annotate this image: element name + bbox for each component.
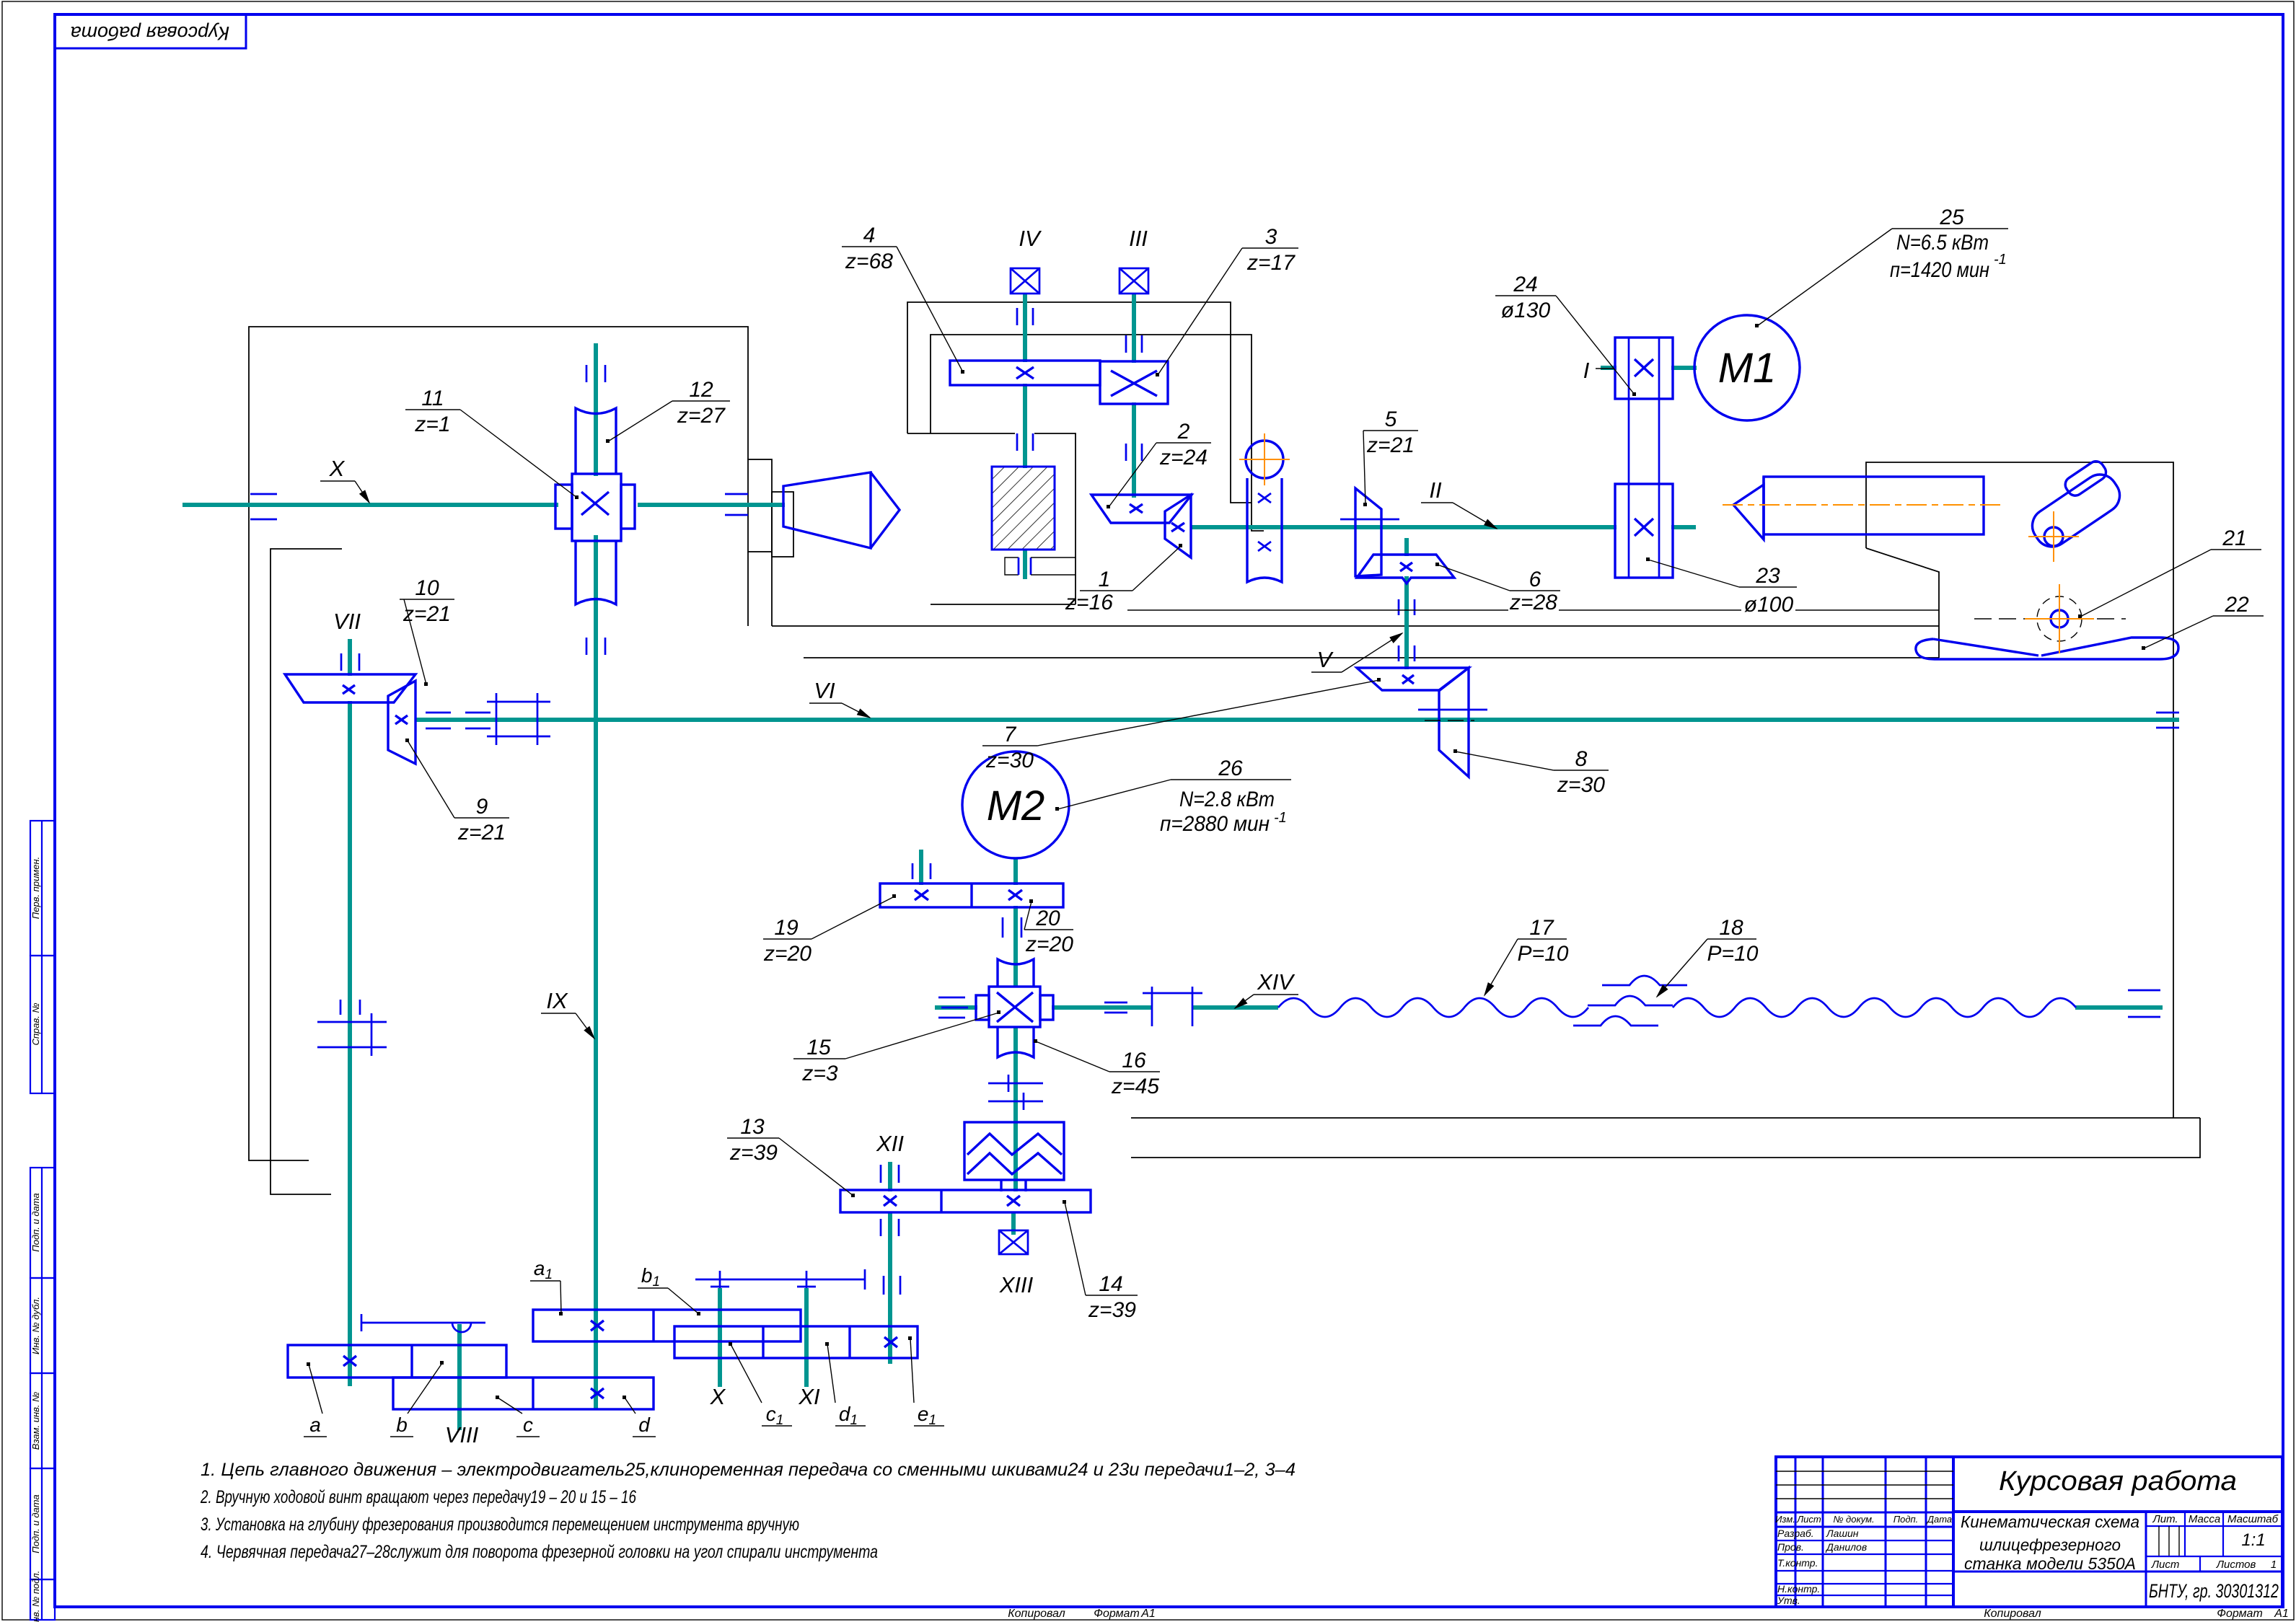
shaft XII upper xyxy=(888,1162,892,1191)
svg-text:1: 1 xyxy=(1099,568,1111,591)
shaft M2 to gear 20 xyxy=(1013,858,1018,885)
thrust support right of shaft IV xyxy=(1030,557,1032,575)
svg-text:22: 22 xyxy=(2224,593,2249,617)
label a1 xyxy=(530,1257,563,1315)
svg-text:z=20: z=20 xyxy=(763,942,811,966)
svg-text:2: 2 xyxy=(1177,420,1190,444)
left margin stamp: Подп. и дата (2) xyxy=(30,1468,55,1579)
label d xyxy=(623,1396,656,1437)
label e1 xyxy=(908,1336,944,1428)
label I xyxy=(1583,358,1614,383)
svg-text:I: I xyxy=(1583,358,1590,383)
pulley 23 xyxy=(1615,484,1673,578)
bottom org cell xyxy=(1953,1571,2146,1573)
gear 7 z=30 bevel xyxy=(1357,668,1469,690)
svg-text:2. Вручную ходовой винт вращаю: 2. Вручную ходовой винт вращают через пе… xyxy=(200,1487,636,1507)
svg-text:Копировал: Копировал xyxy=(1008,1608,1065,1620)
label 16 z=45 xyxy=(1034,1039,1160,1098)
gear 4 z=68 rect xyxy=(950,361,1100,385)
break marks shaft X left end xyxy=(250,494,277,519)
svg-text:п=2880 мин: п=2880 мин xyxy=(1160,812,1270,836)
title block header band xyxy=(1776,1512,1953,1514)
slide marks shaft IV below gear 4 xyxy=(1017,433,1033,451)
svg-text:станка модели 5350А: станка модели 5350А xyxy=(1964,1554,2136,1573)
svg-text:16: 16 xyxy=(1122,1049,1146,1072)
svg-text:P=10: P=10 xyxy=(1707,942,1759,966)
svg-text:II: II xyxy=(1429,477,1442,503)
shaft IV upper xyxy=(1023,294,1027,362)
thrust square below drum (black box with blue edge) xyxy=(1005,557,1019,575)
svg-text:ø100: ø100 xyxy=(1744,593,1794,617)
slide marks shaft III below gear 3 xyxy=(1126,444,1142,461)
svg-text:Инв. № дубл.: Инв. № дубл. xyxy=(30,1297,41,1354)
quadrant arm upper xyxy=(695,1269,865,1290)
svg-text:А1: А1 xyxy=(2274,1608,2289,1620)
milling head pivot circle xyxy=(2044,527,2063,546)
bearing line at gear 8 xyxy=(1418,709,1487,711)
flexible shaft break xyxy=(1573,976,1687,1026)
housing: left column outer outline xyxy=(249,327,748,1160)
spline marks shaft XIV xyxy=(1104,1002,1127,1013)
gear row a1 b1 xyxy=(533,1310,801,1341)
coupling on shaft XIV xyxy=(1143,987,1202,1026)
svg-text:8: 8 xyxy=(1575,747,1588,771)
housing: left column inner outline xyxy=(270,549,342,1194)
svg-text:1:1: 1:1 xyxy=(2241,1530,2265,1550)
svg-text:z=24: z=24 xyxy=(1159,446,1208,470)
svg-text:3. Установка на глубину фрезер: 3. Установка на глубину фрезерования про… xyxy=(201,1515,799,1535)
spline marks shaft VI left xyxy=(426,713,491,728)
label d1 xyxy=(825,1342,866,1428)
left margin stamp: Взам. инв. № xyxy=(30,1373,55,1468)
change gear shaft X lower xyxy=(718,1288,722,1387)
divider under title xyxy=(1953,1510,2282,1513)
svg-text:-1: -1 xyxy=(1994,252,2007,268)
svg-text:Листов: Листов xyxy=(2216,1559,2256,1571)
svg-text:23: 23 xyxy=(1755,564,1780,588)
worm wheel 12 lower segment xyxy=(576,541,616,604)
label 1 z=16 xyxy=(1065,544,1182,614)
svg-text:Дата: Дата xyxy=(1926,1514,1952,1525)
svg-text:Лит.: Лит. xyxy=(2152,1513,2178,1525)
label 7 z=30 xyxy=(982,678,1381,772)
svg-text:IV: IV xyxy=(1019,226,1042,251)
shaft X right part xyxy=(638,503,785,507)
housing: gearbox inner box bottom xyxy=(931,604,1076,605)
shaft VII xyxy=(348,701,352,1386)
coupling on shaft VII xyxy=(317,1013,387,1056)
list row xyxy=(2146,1556,2282,1557)
housing: headstock diagonal xyxy=(1866,548,1939,658)
svg-text:Кинематическая схема: Кинематическая схема xyxy=(1961,1512,2139,1531)
gear 1 z=16 bevel xyxy=(1165,495,1191,557)
housing: wall block B at shaft X exit xyxy=(772,492,793,557)
label 6 z=28 xyxy=(1435,563,1560,614)
label c xyxy=(496,1396,540,1437)
left margin stamp: Подп. и дата (1) xyxy=(30,1168,55,1278)
svg-text:А1: А1 xyxy=(1140,1608,1156,1620)
slide marks shaft V upper xyxy=(1399,599,1415,615)
idler pulley x marks xyxy=(1258,493,1271,551)
label 14 z=39 xyxy=(1063,1200,1138,1322)
label 23 d100 xyxy=(1646,557,1797,617)
shaft VI xyxy=(415,718,2179,722)
svg-text:11: 11 xyxy=(421,387,444,410)
svg-text:М2: М2 xyxy=(987,783,1045,829)
label 12 z=27 xyxy=(606,378,730,443)
worm 11 center box on shaft X xyxy=(555,474,635,541)
label 15 z=3 xyxy=(793,1010,1000,1085)
gear 13 and 14 row xyxy=(840,1190,1091,1212)
svg-text:z=20: z=20 xyxy=(1025,933,1073,956)
svg-text:20: 20 xyxy=(1035,907,1060,930)
svg-text:1. Цепь главного движения – эл: 1. Цепь главного движения – электродвига… xyxy=(201,1460,1296,1480)
svg-text:z=21: z=21 xyxy=(1366,433,1415,457)
shaft III lower xyxy=(1132,402,1136,498)
milling head (rotated) xyxy=(2019,458,2126,553)
triple spline marks left of worm 15 xyxy=(938,997,968,1018)
label 22 xyxy=(2142,593,2264,650)
idler pulley circle xyxy=(1246,441,1283,478)
label 20 z=20 xyxy=(1024,899,1073,956)
slide marks shaft IV upper xyxy=(1017,308,1033,325)
shaft IX xyxy=(594,535,598,1409)
bearing box shaft XIII xyxy=(999,1230,1028,1254)
svg-text:z=28: z=28 xyxy=(1509,591,1557,614)
label 11 z=1 xyxy=(405,387,579,499)
label 5 z=21 xyxy=(1363,407,1418,506)
gear 10 z=21 bevel xyxy=(285,674,415,702)
svg-text:10: 10 xyxy=(415,576,439,600)
label 21 xyxy=(2078,526,2261,618)
gear 9 z=21 bevel xyxy=(388,681,415,764)
svg-text:17: 17 xyxy=(1529,916,1554,940)
svg-text:Утв.: Утв. xyxy=(1777,1595,1800,1606)
shaft XIV left of crossbox xyxy=(935,1005,977,1010)
label V xyxy=(1311,633,1402,672)
svg-text:X: X xyxy=(710,1384,726,1409)
label 19 z=20 xyxy=(763,894,896,966)
label 9 z=21 xyxy=(405,739,509,845)
housing: headstock box xyxy=(1866,462,2173,1118)
label 26 motor M2 xyxy=(1055,757,1291,836)
spring box xyxy=(964,1122,1064,1191)
worm wheel 12 upper segment xyxy=(576,408,616,474)
label XIV xyxy=(1235,969,1298,1008)
gear row c d xyxy=(393,1378,654,1409)
label 24 d130 xyxy=(1495,273,1636,396)
slide marks shaft IX top xyxy=(586,365,605,382)
shaft gear20 to gear15 xyxy=(1013,906,1018,987)
shaft IV lower xyxy=(1023,550,1027,579)
svg-text:XI: XI xyxy=(798,1384,820,1409)
svg-text:18: 18 xyxy=(1719,916,1743,940)
label VI xyxy=(809,678,870,718)
quadrant arm lower xyxy=(361,1314,485,1331)
svg-text:4. Червячная передача27–28слу: 4. Червячная передача27–28служит для пов… xyxy=(201,1542,878,1562)
svg-text:Справ. №: Справ. № xyxy=(30,1002,41,1045)
svg-text:Лист: Лист xyxy=(2151,1559,2180,1571)
shaft XIV right segment 2 xyxy=(1193,1005,1278,1010)
label VII xyxy=(333,609,361,634)
svg-text:Подп. и дата: Подп. и дата xyxy=(30,1193,41,1251)
shaft IV middle xyxy=(1023,384,1027,468)
gear row a b xyxy=(288,1345,506,1378)
svg-text:XIV: XIV xyxy=(1257,969,1296,995)
svg-text:6: 6 xyxy=(1529,568,1541,591)
workpiece body xyxy=(1764,477,1984,534)
top-left rotated stamp box xyxy=(55,14,246,48)
svg-text:26: 26 xyxy=(1218,757,1243,780)
slide marks right of quadrant arm xyxy=(884,1276,900,1295)
shaft XIV right end xyxy=(2075,1005,2163,1010)
shaft XII lower xyxy=(888,1212,892,1364)
idler pulley body xyxy=(1247,478,1282,582)
svg-text:13: 13 xyxy=(740,1115,765,1139)
svg-text:III: III xyxy=(1129,226,1148,251)
svg-text:b: b xyxy=(396,1414,408,1436)
svg-text:P=10: P=10 xyxy=(1518,942,1569,966)
svg-text:Взам. инв. №: Взам. инв. № xyxy=(30,1392,41,1450)
svg-text:БНТУ, гр. 30301312: БНТУ, гр. 30301312 xyxy=(2149,1580,2279,1602)
gear 2 z=24 bevel xyxy=(1091,495,1192,523)
shaft II right stub xyxy=(1671,525,1696,529)
cutter 21 dashed centerline xyxy=(1974,618,2126,620)
slide marks gear19 stub xyxy=(912,863,931,879)
housing: gearbox outer box xyxy=(907,302,1252,503)
svg-text:N=6.5 кВт: N=6.5 кВт xyxy=(1896,231,1989,255)
svg-text:Пров.: Пров. xyxy=(1777,1541,1804,1553)
left margin stamp: Справ. № xyxy=(30,956,55,1093)
break marks shaft VI right end xyxy=(2156,713,2179,728)
flexible shaft 17 wave left xyxy=(1278,998,1588,1017)
shaft through spring box xyxy=(1013,1125,1018,1191)
svg-text:z=39: z=39 xyxy=(1088,1298,1136,1322)
bearing box shaft IV xyxy=(1011,268,1039,294)
svg-text:19: 19 xyxy=(774,916,799,940)
svg-text:VIII: VIII xyxy=(445,1422,479,1447)
svg-text:Лашин: Лашин xyxy=(1826,1528,1859,1539)
slide marks below gear 20 xyxy=(1003,917,1021,938)
orange crosshair cutter 21 xyxy=(2025,584,2094,653)
housing: bed top line xyxy=(772,625,1939,627)
svg-text:z=21: z=21 xyxy=(457,821,506,845)
orange crosshair milling head pivot xyxy=(2028,511,2079,562)
svg-text:Перв. примен.: Перв. примен. xyxy=(30,857,41,919)
svg-text:25: 25 xyxy=(1939,206,1964,229)
svg-text:№ докум.: № докум. xyxy=(1833,1514,1874,1525)
left margin stamp: Инв. № дубл. xyxy=(30,1278,55,1373)
label 2 z=24 xyxy=(1107,420,1211,508)
gear 5 z=21 bevel xyxy=(1355,488,1381,576)
worm wheel 16 upper segment xyxy=(998,959,1034,987)
housing: lower bed band top xyxy=(1131,1117,2200,1119)
svg-text:Разраб.: Разраб. xyxy=(1777,1528,1814,1539)
svg-text:9: 9 xyxy=(476,795,488,819)
pivot symbol on arm xyxy=(452,1323,471,1332)
shaft I left stub xyxy=(1601,366,1617,370)
svg-text:12: 12 xyxy=(689,378,713,402)
svg-text:a: a xyxy=(309,1414,321,1436)
svg-text:z=68: z=68 xyxy=(845,250,893,273)
svg-text:3: 3 xyxy=(1265,225,1277,249)
svg-text:Формат: Формат xyxy=(2217,1608,2263,1620)
svg-text:VII: VII xyxy=(333,609,361,634)
worm wheel 16 lower segment xyxy=(998,1027,1034,1057)
svg-text:Масса: Масса xyxy=(2189,1513,2220,1525)
svg-text:24: 24 xyxy=(1513,273,1537,296)
left margin stamp: Перв. примен. xyxy=(30,821,55,956)
shaft VIII xyxy=(457,1324,462,1430)
screw couplings below worm 15 xyxy=(988,1075,1043,1110)
slide marks shaft VII above coupling xyxy=(340,1000,360,1015)
label 10 z=21 xyxy=(400,576,454,686)
bearing line at gear 5 xyxy=(1340,519,1399,521)
pulley 24 xyxy=(1615,338,1673,399)
gear 19 and 20 row xyxy=(880,883,1063,907)
label b xyxy=(390,1361,444,1437)
shaft of gear 19 stub xyxy=(919,850,923,885)
worm drum hatched xyxy=(992,467,1055,550)
shaft V upper stub xyxy=(1404,538,1409,556)
svg-text:Формат: Формат xyxy=(1094,1608,1140,1620)
svg-text:7: 7 xyxy=(1004,723,1017,746)
slide marks shaft IX below worm xyxy=(586,638,605,655)
svg-text:VI: VI xyxy=(814,678,835,703)
housing: wall block A at shaft X exit xyxy=(748,459,772,552)
label 13 z=39 xyxy=(727,1115,855,1197)
label IX xyxy=(541,988,594,1039)
svg-text:z=27: z=27 xyxy=(677,404,726,428)
housing: bed second line xyxy=(804,657,1939,658)
svg-text:z=45: z=45 xyxy=(1111,1075,1159,1098)
slide marks shaft V lower xyxy=(1399,645,1415,661)
svg-text:z=30: z=30 xyxy=(985,749,1034,772)
svg-text:Лист: Лист xyxy=(1796,1514,1821,1525)
left margin stamp: Инв. № подл. xyxy=(30,1571,55,1622)
svg-text:ø130: ø130 xyxy=(1501,299,1551,322)
slide marks shaft VII top xyxy=(341,653,359,671)
label XII xyxy=(876,1131,904,1156)
svg-text:Курсовая работа: Курсовая работа xyxy=(1999,1466,2237,1497)
motor M2 xyxy=(962,752,1069,858)
shaft XIII vertical xyxy=(1011,1212,1016,1235)
label a xyxy=(304,1362,327,1437)
label 4 z=68 xyxy=(842,224,964,374)
title block reserve row lines (black) xyxy=(1776,1471,1953,1472)
svg-text:14: 14 xyxy=(1099,1272,1122,1296)
flexible shaft 18 wave right xyxy=(1673,998,2076,1017)
lit/massa/masshtab block xyxy=(2145,1512,2147,1607)
label X axis xyxy=(320,456,369,503)
label 25 motor M1 xyxy=(1755,206,2008,327)
support blade 22 xyxy=(1916,638,2178,659)
title block left columns xyxy=(1795,1457,1797,1607)
hidden dash at gear 8 xyxy=(1425,720,1474,721)
shaft XIV right segment 1 xyxy=(1052,1005,1153,1010)
motor M1 xyxy=(1694,315,1800,420)
svg-text:Данилов: Данилов xyxy=(1825,1541,1867,1553)
label II xyxy=(1421,477,1497,529)
svg-text:z=1: z=1 xyxy=(414,413,450,436)
svg-text:c: c xyxy=(523,1414,533,1436)
svg-text:21: 21 xyxy=(2222,526,2246,550)
svg-text:Н.контр.: Н.контр. xyxy=(1777,1583,1820,1595)
shaft IX upper xyxy=(594,343,598,476)
svg-text:Подп. и дата: Подп. и дата xyxy=(30,1494,41,1553)
svg-text:z=16: z=16 xyxy=(1065,591,1113,614)
label b1 xyxy=(638,1264,700,1315)
label 17 P=10 xyxy=(1485,916,1569,995)
label 3 z=17 xyxy=(1156,225,1298,376)
label 8 z=30 xyxy=(1453,747,1609,797)
svg-text:М1: М1 xyxy=(1718,345,1777,392)
svg-text:5: 5 xyxy=(1385,407,1397,431)
orange crosshair idler pulley xyxy=(1239,433,1290,485)
svg-text:Инв. № подл.: Инв. № подл. xyxy=(30,1571,41,1622)
svg-text:Масштаб: Масштаб xyxy=(2227,1513,2279,1525)
svg-text:Т.контр.: Т.контр. xyxy=(1777,1557,1818,1569)
cone cutter tip xyxy=(871,472,900,548)
title block outer xyxy=(1776,1457,2282,1607)
svg-text:Курсовая работа: Курсовая работа xyxy=(71,22,230,44)
label c1 xyxy=(729,1342,792,1428)
shaft II xyxy=(1191,525,1617,529)
svg-text:шлицефрезерного: шлицефрезерного xyxy=(1979,1535,2121,1554)
chained label underline xyxy=(1127,609,1508,611)
break marks shaft XIV right end xyxy=(2128,990,2160,1017)
change gear shaft XI lower xyxy=(804,1288,809,1387)
slide marks shaft XII above row xyxy=(881,1165,899,1183)
svg-text:Изм.: Изм. xyxy=(1775,1514,1795,1525)
worm 15 z=3 box on shaft XIV xyxy=(976,987,1053,1027)
gear row c1 d1 e1 xyxy=(674,1326,918,1358)
label XIII xyxy=(999,1272,1034,1297)
jaw clutch on shaft VI xyxy=(487,693,550,745)
label 18 P=10 xyxy=(1657,916,1759,997)
shaft V xyxy=(1404,576,1409,669)
slide marks shaft XII below row xyxy=(881,1219,899,1236)
svg-text:z=39: z=39 xyxy=(729,1141,778,1165)
svg-text:XIII: XIII xyxy=(999,1272,1034,1297)
svg-text:z=3: z=3 xyxy=(801,1062,838,1085)
tailstock center cone xyxy=(1733,477,1764,539)
slide marks shaft III upper xyxy=(1126,335,1142,353)
svg-text:z=17: z=17 xyxy=(1246,251,1296,275)
svg-text:XII: XII xyxy=(876,1131,904,1156)
svg-text:Копировал: Копировал xyxy=(1984,1608,2041,1620)
shaft I right stub xyxy=(1671,366,1697,370)
svg-text:Подп.: Подп. xyxy=(1893,1514,1919,1525)
cutter 21 dashed circle xyxy=(2037,596,2082,641)
shaft X xyxy=(182,503,558,507)
bearing box shaft III xyxy=(1120,268,1148,294)
cone cutter on shaft X end xyxy=(783,472,871,548)
svg-text:-1: -1 xyxy=(1274,810,1287,826)
housing: lower bed band bottom xyxy=(1131,1118,2200,1158)
svg-text:z=30: z=30 xyxy=(1557,773,1605,797)
gear 3 z=17 box xyxy=(1100,361,1168,404)
break marks shaft X right at wall xyxy=(725,494,748,515)
gear 8 z=30 bevel xyxy=(1439,668,1469,777)
orange centerline workpiece xyxy=(1723,504,2002,506)
housing: gearbox inner box xyxy=(931,335,1264,531)
shaft III upper xyxy=(1132,294,1136,363)
svg-text:4: 4 xyxy=(863,224,876,247)
svg-text:1: 1 xyxy=(2271,1559,2277,1571)
svg-text:IX: IX xyxy=(546,988,568,1013)
svg-text:N=2.8 кВт: N=2.8 кВт xyxy=(1179,788,1275,811)
